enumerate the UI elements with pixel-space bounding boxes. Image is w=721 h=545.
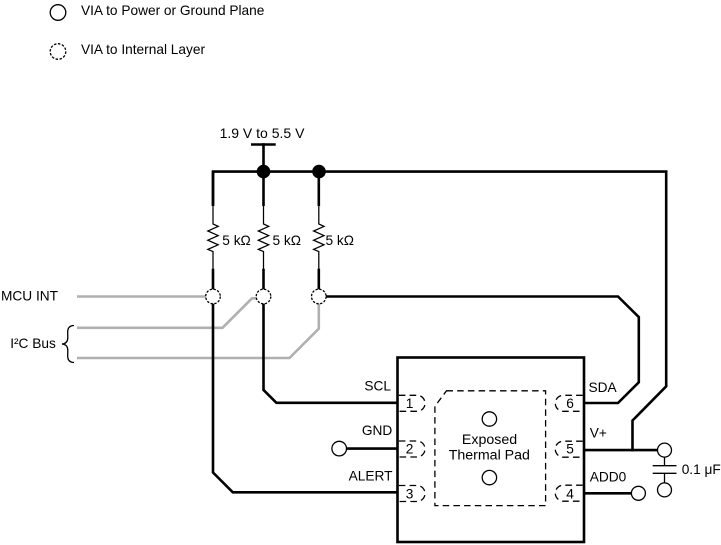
svg-text:1: 1: [406, 396, 414, 411]
svg-text:Thermal Pad: Thermal Pad: [449, 448, 530, 464]
svg-text:5 kΩ: 5 kΩ: [222, 233, 251, 248]
svg-text:ALERT: ALERT: [349, 468, 394, 483]
svg-text:MCU INT: MCU INT: [1, 289, 59, 304]
svg-text:4: 4: [566, 486, 574, 501]
svg-text:ADD0: ADD0: [590, 470, 627, 485]
svg-text:5: 5: [566, 442, 574, 457]
svg-text:I²C Bus: I²C Bus: [10, 336, 56, 351]
svg-text:VIA to Power or Ground Plane: VIA to Power or Ground Plane: [81, 3, 264, 18]
svg-text:GND: GND: [362, 423, 393, 438]
svg-text:V+: V+: [590, 425, 607, 440]
svg-text:6: 6: [566, 396, 574, 411]
svg-text:SCL: SCL: [364, 379, 391, 394]
svg-text:3: 3: [406, 486, 414, 501]
svg-text:Exposed: Exposed: [462, 432, 517, 448]
svg-text:VIA to Internal Layer: VIA to Internal Layer: [81, 42, 205, 57]
svg-text:0.1 μF: 0.1 μF: [682, 462, 721, 477]
svg-text:5 kΩ: 5 kΩ: [273, 233, 302, 248]
svg-text:2: 2: [406, 442, 414, 457]
svg-text:SDA: SDA: [589, 380, 618, 395]
svg-text:5 kΩ: 5 kΩ: [326, 233, 355, 248]
svg-text:1.9 V to 5.5 V: 1.9 V to 5.5 V: [220, 125, 305, 141]
